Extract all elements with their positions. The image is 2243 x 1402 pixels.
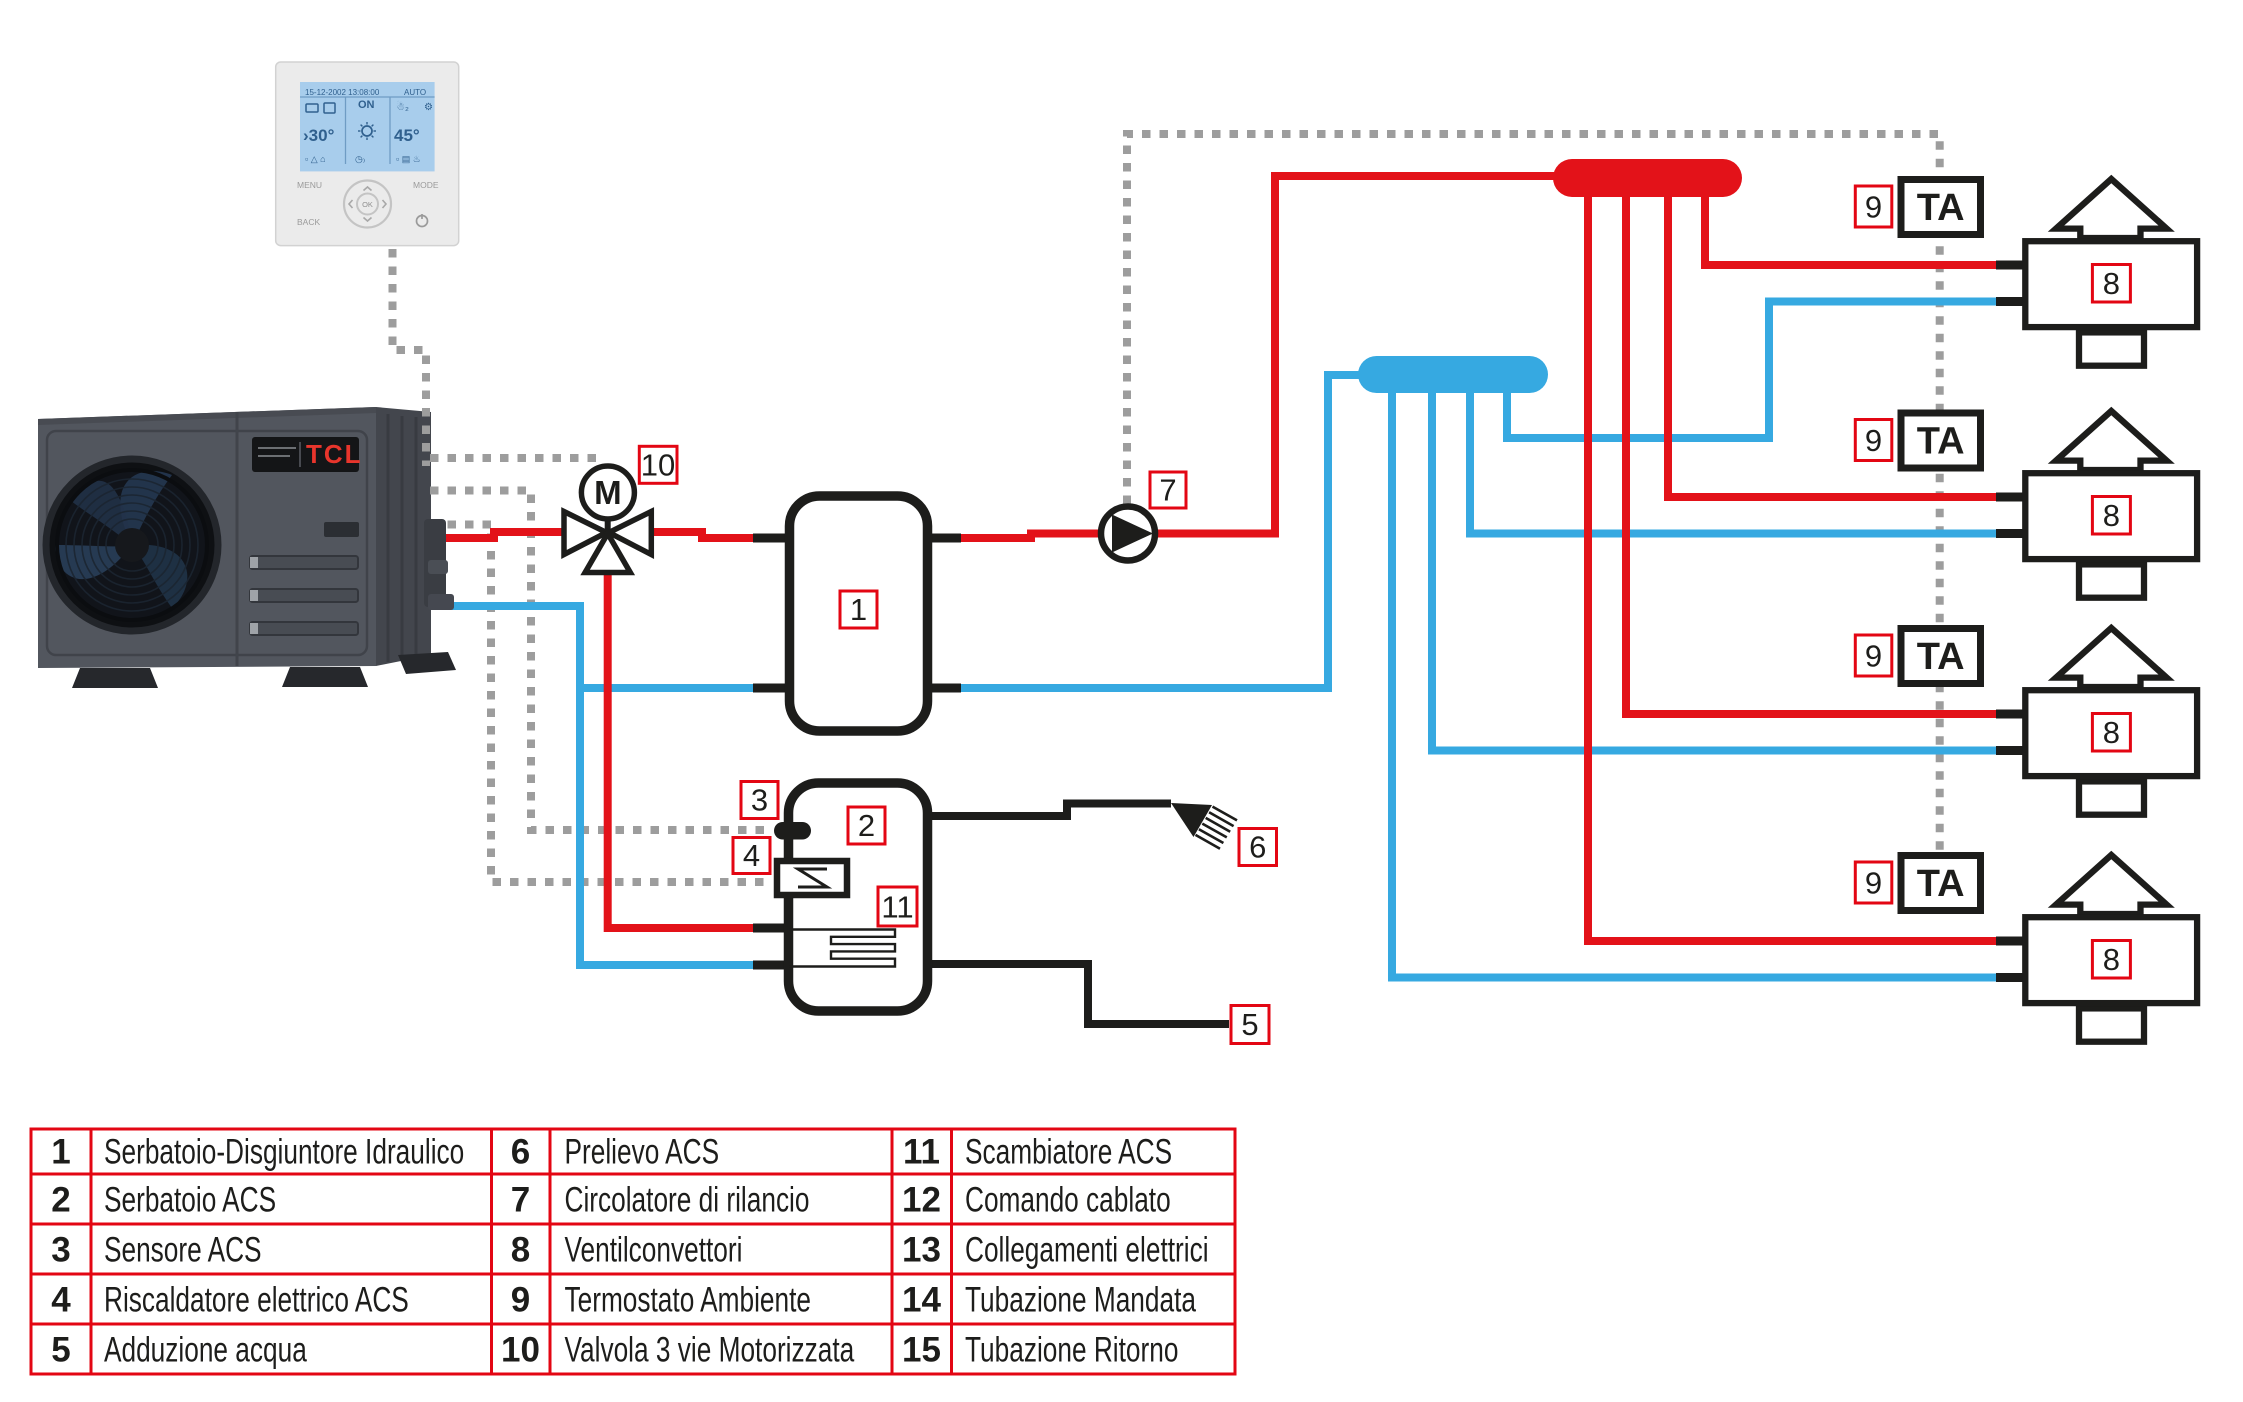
- node label 1 tank1: [840, 591, 877, 628]
- node tank2 coil inlet stub: [753, 924, 790, 933]
- fan coil FC2: [2025, 411, 2197, 598]
- TCL logo plate: [252, 437, 359, 472]
- node label 8 fan coil 1: [2092, 265, 2130, 303]
- node fan coil 2 red stub: [1996, 493, 2026, 502]
- svg-text:11: 11: [881, 890, 913, 925]
- unit feet: [72, 668, 158, 688]
- heat pump outdoor unit (TCL monobloc): [38, 407, 456, 688]
- tank 2 DHW tank (Serbatoio ACS): [789, 783, 928, 1011]
- controller body: [276, 62, 459, 246]
- unit front top edge highlight: [38, 407, 376, 425]
- sensor S3 (Sensore ACS): [774, 822, 811, 840]
- thermostat TA3: [1901, 629, 1981, 684]
- svg-text:TA: TA: [1917, 421, 1965, 463]
- node label 8 fan coil 4: [2092, 941, 2130, 979]
- wire circulation pump to thermostats bus: [1127, 134, 1940, 852]
- wire blue manifold to fan coil 1: [1507, 302, 1998, 439]
- svg-text:15-12-2002 13:08:00: 15-12-2002 13:08:00: [305, 88, 380, 97]
- wire red supply: tank1 right port to circulation pump: [957, 534, 1103, 539]
- svg-text:5: 5: [1241, 1007, 1258, 1042]
- thermostat TA1 (Termostato Ambiente): [1901, 180, 1981, 235]
- svg-text:3: 3: [51, 1231, 70, 1270]
- node label 10 valve: [639, 446, 677, 483]
- red manifold (supply collector): [1553, 159, 1742, 197]
- node label 8 fan coil 3: [2092, 714, 2130, 752]
- wire red supply: heat pump to 3-way valve: [436, 532, 575, 538]
- fan coil FC1 (Ventilconvettori): [2025, 179, 2197, 366]
- shower head (Prelievo ACS): [1171, 803, 1237, 849]
- node label 8 fan coil 2: [2092, 497, 2130, 535]
- fan coil FC4: [2025, 855, 2197, 1042]
- node label 9 thermostat 4: [1855, 862, 1892, 903]
- svg-text:M: M: [594, 474, 622, 511]
- wire red manifold to fan coil 2: [1668, 190, 1998, 497]
- svg-text:8: 8: [2103, 266, 2120, 301]
- wire blue manifold to fan coil 4: [1392, 390, 1998, 978]
- wire red manifold to fan coil 1: [1705, 192, 1998, 265]
- node label 9 thermostat 1: [1855, 186, 1892, 227]
- svg-text:45°: 45°: [394, 126, 420, 145]
- svg-text:13: 13: [902, 1231, 941, 1270]
- svg-text:Circolatore di rilancio: Circolatore di rilancio: [565, 1180, 810, 1220]
- svg-text:TA: TA: [1917, 863, 1965, 905]
- svg-text:9: 9: [1865, 866, 1882, 901]
- svg-text:BACK: BACK: [297, 217, 320, 227]
- heat pump side pipe stubs (foreground): [424, 519, 454, 610]
- unit front inner panel seam: [47, 431, 367, 655]
- wired controller (Comando cablato): [276, 62, 459, 246]
- unit side panel ridges: [388, 414, 416, 662]
- svg-text:2: 2: [858, 808, 875, 843]
- svg-text:15: 15: [902, 1331, 941, 1370]
- svg-text:1: 1: [850, 592, 867, 627]
- node tank1 blue left port stub: [753, 684, 790, 693]
- fan grille ring: [46, 459, 218, 631]
- node label 11 coil: [878, 887, 917, 926]
- wire red supply: pump to red manifold: [1152, 176, 1557, 534]
- unit handle slot: [324, 522, 359, 537]
- svg-text:12: 12: [902, 1181, 941, 1220]
- svg-text:Sensore ACS: Sensore ACS: [104, 1230, 262, 1270]
- node fan coil 2 blue stub: [1996, 529, 2026, 538]
- wire heat pump to DHW sensor: [430, 491, 772, 831]
- legend numbers column 1: [51, 1133, 941, 1370]
- node label 9 thermostat 3: [1855, 635, 1892, 676]
- svg-text:9: 9: [1865, 639, 1882, 674]
- svg-text:6: 6: [1249, 830, 1266, 865]
- node fan coil 4 blue stub: [1996, 973, 2026, 982]
- svg-text:9: 9: [1865, 423, 1882, 458]
- node label 3 sensor: [741, 782, 778, 819]
- svg-text:▫ △ ⌂: ▫ △ ⌂: [305, 154, 326, 164]
- svg-text:Collegamenti elettrici: Collegamenti elettrici: [965, 1230, 1209, 1270]
- svg-text:Serbatoio-Disgiuntore Idraulic: Serbatoio-Disgiuntore Idraulico: [104, 1132, 464, 1172]
- svg-text:ON: ON: [358, 99, 375, 111]
- unit right side panel: [376, 407, 431, 666]
- svg-text:☃₂: ☃₂: [396, 100, 409, 113]
- svg-text:7: 7: [1159, 473, 1176, 508]
- node tank1 red right port stub: [927, 534, 961, 543]
- svg-text:MODE: MODE: [413, 180, 439, 190]
- svg-text:Termostato Ambiente: Termostato Ambiente: [565, 1280, 811, 1320]
- svg-text:5: 5: [51, 1331, 70, 1370]
- node label 4 heater: [733, 838, 770, 874]
- svg-text:4: 4: [51, 1281, 71, 1320]
- node label 9 thermostat 2: [1855, 420, 1892, 461]
- svg-text:›30°: ›30°: [303, 126, 335, 145]
- wire blue manifold to fan coil 2: [1470, 390, 1998, 534]
- node tank1 blue right port stub: [927, 684, 961, 693]
- wire red supply: valve bottom to DHW tank coil: [608, 568, 757, 928]
- controller LCD screen: [300, 82, 435, 171]
- svg-text:Tubazione Ritorno: Tubazione Ritorno: [965, 1330, 1178, 1370]
- svg-text:14: 14: [902, 1281, 941, 1320]
- svg-text:4: 4: [743, 838, 760, 873]
- svg-text:Adduzione acqua: Adduzione acqua: [104, 1330, 307, 1370]
- svg-text:Valvola 3 vie Motorizzata: Valvola 3 vie Motorizzata: [565, 1330, 855, 1370]
- node label 5 water inlet: [1231, 1006, 1269, 1044]
- svg-text:Comando cablato: Comando cablato: [965, 1180, 1171, 1220]
- svg-text:9: 9: [1865, 190, 1882, 225]
- svg-text:Riscaldatore elettrico ACS: Riscaldatore elettrico ACS: [104, 1280, 409, 1320]
- svg-text:Serbatoio ACS: Serbatoio ACS: [104, 1180, 276, 1220]
- svg-text:8: 8: [2103, 942, 2120, 977]
- wire controller cable vertical from controller: [393, 249, 427, 466]
- svg-text:TCL: TCL: [306, 439, 363, 469]
- node label 2 DHW tank: [848, 807, 885, 844]
- node tank1 red left port stub: [753, 534, 790, 543]
- thermostat TA2: [1901, 413, 1981, 468]
- svg-text:Tubazione Mandata: Tubazione Mandata: [965, 1280, 1197, 1320]
- svg-text:Prelievo ACS: Prelievo ACS: [565, 1132, 720, 1172]
- svg-text:7: 7: [511, 1181, 530, 1220]
- tank 1 hydraulic separator (Serbatoio-Disgiuntore Idraulico): [790, 496, 928, 731]
- heat exchanger coil U11 (Scambiatore ACS): [789, 930, 895, 967]
- left column icons: [306, 104, 318, 112]
- svg-text:8: 8: [2103, 715, 2120, 750]
- svg-text:▫ ▤ ♨: ▫ ▤ ♨: [396, 154, 421, 164]
- legend table grid: [30, 1129, 1237, 1374]
- wire blue return: tank1 right port to blue manifold: [957, 375, 1362, 688]
- controller navigation dial: [344, 181, 391, 228]
- svg-text:Ventilconvettori: Ventilconvettori: [565, 1230, 743, 1270]
- wire DHW outlet to shower (6): [927, 804, 1171, 817]
- fan coil FC3: [2025, 628, 2197, 815]
- svg-text:⚙: ⚙: [424, 102, 433, 113]
- node fan coil 3 blue stub: [1996, 746, 2026, 755]
- svg-text:11: 11: [903, 1133, 940, 1172]
- legend item texts: [104, 1132, 1209, 1370]
- unit panel divider: [236, 412, 239, 666]
- svg-text:AUTO: AUTO: [404, 88, 426, 97]
- node fan coil 4 red stub: [1996, 937, 2026, 946]
- svg-text:10: 10: [501, 1331, 540, 1370]
- svg-text:TA: TA: [1917, 636, 1965, 678]
- svg-text:Scambiatore ACS: Scambiatore ACS: [965, 1132, 1172, 1172]
- controller power button: [417, 214, 428, 227]
- wire heat pump to DHW electric heater: [430, 525, 772, 883]
- node fan coil 3 red stub: [1996, 710, 2026, 719]
- electric heater R4 (Riscaldatore elettrico ACS): [777, 861, 847, 895]
- node label 6 shower: [1239, 829, 1277, 866]
- controller button labels: [297, 180, 439, 227]
- svg-text:TA: TA: [1917, 187, 1965, 229]
- thermostat TA4: [1901, 856, 1981, 911]
- svg-text:OK: OK: [362, 200, 373, 209]
- wire cold water inlet (5) to DHW tank: [927, 964, 1229, 1024]
- wire red manifold to fan coil 4: [1588, 190, 1998, 941]
- svg-text:1: 1: [51, 1133, 70, 1172]
- node fan coil 1 blue stub: [1996, 297, 2026, 306]
- svg-text:10: 10: [641, 448, 675, 483]
- unit vent slots: [250, 556, 358, 635]
- node tank2 coil outlet stub: [753, 961, 790, 970]
- wire blue return: heat pump to tank1 and DHW coil: [436, 606, 757, 965]
- svg-text:9: 9: [511, 1281, 530, 1320]
- wire red manifold to fan coil 3: [1626, 190, 1998, 714]
- svg-text:MENU: MENU: [297, 180, 322, 190]
- circulation pump P7 (Circolatore di rilancio): [1101, 507, 1155, 561]
- wire blue branch to hydraulic separator tank1 left port: [580, 684, 758, 692]
- node fan coil 1 red stub: [1996, 261, 2026, 270]
- fan blades: [55, 469, 208, 621]
- svg-text:8: 8: [511, 1231, 530, 1270]
- svg-text:6: 6: [511, 1133, 530, 1172]
- svg-text:2: 2: [51, 1181, 70, 1220]
- node label 7 pump: [1150, 472, 1186, 508]
- 3-way motorized valve V10 (Valvola 3 vie Motorizzata): [564, 466, 651, 573]
- blue manifold (return collector): [1358, 356, 1548, 393]
- unit front face: [38, 407, 376, 668]
- wire red supply: valve to tank1 left port: [640, 532, 758, 538]
- wire heat pump to 3-way valve motor: [430, 454, 601, 462]
- svg-text:8: 8: [2103, 498, 2120, 533]
- svg-text:◷₎: ◷₎: [355, 154, 365, 164]
- svg-text:3: 3: [751, 783, 768, 818]
- wire blue manifold to fan coil 3: [1432, 390, 1998, 751]
